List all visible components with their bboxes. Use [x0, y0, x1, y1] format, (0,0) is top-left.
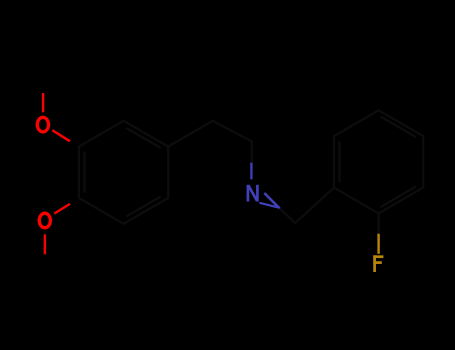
- F bond black half: [378, 213, 380, 233]
- bond N-CH2 blue half: [250, 163, 252, 180]
- imine double bond N=C blue halves: [264, 193, 279, 208]
- bond C1 to fluorophenyl ring: [295, 188, 334, 223]
- oxygen O1 (top methoxy): [37, 117, 48, 132]
- bond ring C1' to benzylic CH2: [168, 121, 213, 147]
- bond O2-ring red half: [54, 204, 70, 214]
- aromatic inner lines left ring: [83, 153, 85, 193]
- imine bond black halves to C1: [280, 208, 296, 223]
- fluorine F: [373, 255, 383, 272]
- bond O1-ring red half: [52, 130, 70, 141]
- oxygen O2 (bottom methoxy): [39, 213, 50, 228]
- bond C-F olive half: [377, 234, 379, 254]
- benzene ring left (dimethoxyphenyl): [79, 121, 168, 224]
- methyl bond CH3-O (top methoxy), red: [42, 93, 44, 112]
- benzene ring right (2-fluorophenyl): [334, 110, 423, 213]
- bond C3H2 down to N (black half): [251, 142, 253, 163]
- methyl bond O-CH3 (bottom methoxy), red: [44, 234, 46, 254]
- aromatic inner lines right ring: [338, 142, 340, 182]
- nitrogen N: [248, 185, 258, 202]
- bond CH2-CH2: [213, 121, 252, 142]
